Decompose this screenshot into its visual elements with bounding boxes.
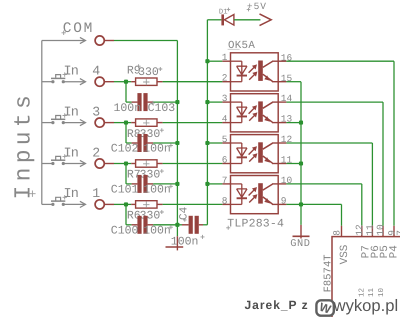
capacitor C103 bbox=[125, 82, 127, 102]
capacitor C4 bbox=[177, 224, 182, 226]
junction node R6 input bbox=[124, 202, 128, 206]
svg-text:6: 6 bbox=[222, 154, 228, 165]
resistor R7 bbox=[136, 160, 157, 167]
wire In 2 arrow bbox=[63, 163, 84, 165]
svg-text:C103: C103 bbox=[148, 102, 176, 115]
wire junction to R7 bbox=[126, 163, 131, 165]
junction +5V rail pin 1 bbox=[205, 59, 209, 63]
pin stub 11 bbox=[272, 163, 286, 165]
pin stub In 2 pad bbox=[105, 163, 114, 165]
svg-text:wykop.pl: wykop.pl bbox=[333, 296, 399, 315]
wire pad to junction (R6 input) bbox=[114, 203, 126, 205]
wire pin 13 to GND rail bbox=[286, 122, 301, 124]
wire COM arrow bbox=[42, 40, 85, 42]
svg-text:GND: GND bbox=[290, 238, 310, 250]
wire GND to IC VSS bbox=[301, 203, 342, 205]
pin stub 1 bbox=[222, 60, 230, 62]
pin stub In 1 pad bbox=[105, 203, 114, 205]
svg-text:F8574T: F8574T bbox=[322, 254, 334, 292]
junction node R7 input bbox=[124, 161, 128, 165]
svg-text:3: 3 bbox=[92, 104, 100, 119]
wire C103 to COM rail bbox=[153, 101, 177, 103]
junction COM rail bbox=[175, 141, 179, 145]
pin stub 6 bbox=[222, 163, 230, 165]
pad In 4 bbox=[95, 77, 104, 86]
wire C102 to COM rail bbox=[153, 142, 177, 144]
wire C100 to COM rail bbox=[153, 224, 177, 226]
wire rail to pin 7 bbox=[207, 183, 222, 185]
resistor R9 bbox=[136, 78, 157, 85]
pin stub 4 bbox=[222, 122, 230, 124]
pin stub 5 bbox=[222, 142, 230, 144]
junction node R8 input bbox=[124, 121, 128, 125]
ground COM (bottom) bbox=[176, 236, 178, 250]
opto channel 1 box (OK5A) bbox=[231, 53, 279, 91]
svg-text:Inputs: Inputs bbox=[11, 91, 37, 200]
wire C4 to +5V rail bbox=[203, 224, 207, 226]
pin stub 13 bbox=[272, 122, 286, 124]
wire pin 11 to GND rail bbox=[286, 163, 301, 165]
opto channel 3 box (OK5A) bbox=[231, 135, 279, 173]
svg-text:100n: 100n bbox=[143, 184, 171, 197]
phototransistor channel 3 bbox=[258, 142, 263, 162]
pin stub 2 bbox=[222, 81, 230, 83]
svg-text:9: 9 bbox=[281, 196, 287, 207]
junction COM rail bbox=[175, 100, 179, 104]
svg-text:In: In bbox=[64, 187, 78, 202]
wire COM rail vertical bbox=[176, 41, 178, 225]
capacitor C101 bbox=[125, 164, 127, 184]
resistor R6 bbox=[136, 201, 157, 208]
svg-text:P4: P4 bbox=[389, 245, 400, 259]
switch button In 4 bbox=[51, 77, 65, 79]
ground GND bbox=[300, 225, 302, 239]
arrowhead In 4 bbox=[80, 79, 86, 85]
pad In 1 bbox=[95, 200, 104, 209]
svg-text:OK5A: OK5A bbox=[228, 40, 255, 52]
capacitor C102 bbox=[125, 123, 127, 143]
svg-text:C101: C101 bbox=[111, 184, 139, 197]
arrowhead In 2 bbox=[80, 160, 86, 166]
svg-text:In: In bbox=[64, 105, 78, 120]
pin stub 3 bbox=[222, 101, 230, 103]
pin stub In 3 pad bbox=[105, 122, 114, 124]
supply +5V symbol bbox=[260, 14, 272, 26]
pin stub COM pad bbox=[105, 40, 114, 42]
pad In 3 bbox=[95, 118, 104, 127]
svg-text:D1: D1 bbox=[219, 9, 228, 17]
capacitor C100 bbox=[125, 204, 127, 224]
opto channel 2 box (OK5A) bbox=[231, 94, 279, 132]
svg-text:COM: COM bbox=[63, 21, 94, 37]
LED channel 4 bbox=[231, 183, 242, 185]
svg-text:100n: 100n bbox=[143, 143, 171, 156]
wire diode to +5V bbox=[234, 19, 261, 21]
wire pad to junction (R7 input) bbox=[114, 163, 126, 165]
wire COM rail to ground bbox=[176, 225, 178, 236]
pin stub 10 bbox=[272, 183, 286, 185]
wire In 1 stub bbox=[42, 203, 52, 205]
svg-text:100n: 100n bbox=[171, 236, 199, 249]
svg-text:In: In bbox=[64, 146, 78, 161]
wire COM to rail bbox=[114, 40, 177, 42]
svg-text:330: 330 bbox=[140, 128, 161, 141]
svg-text:1: 1 bbox=[222, 52, 228, 63]
LED channel 1 bbox=[231, 60, 242, 62]
wire In 1 arrow bbox=[63, 203, 84, 205]
wire opto pin 10 to IC P7/12 bbox=[286, 183, 361, 185]
wire pad to junction (R9 input) bbox=[114, 81, 126, 83]
pin stub 12 bbox=[272, 142, 286, 144]
pin stub 7 bbox=[222, 183, 230, 185]
wire junction to R6 bbox=[126, 203, 131, 205]
wire In 3 arrow bbox=[63, 122, 84, 124]
pad In 2 bbox=[95, 159, 104, 168]
switch button In 2 bbox=[51, 159, 65, 161]
wire junction to R8 bbox=[126, 122, 131, 124]
resistor R8 bbox=[136, 119, 157, 126]
junction node R9 input bbox=[124, 80, 128, 84]
wire rail to diode bbox=[207, 19, 221, 21]
svg-text:8: 8 bbox=[332, 230, 343, 236]
wire rail to pin 1 bbox=[207, 60, 222, 62]
svg-text:C4: C4 bbox=[179, 206, 191, 220]
wire R9 to opto pin 2 bbox=[157, 81, 163, 83]
junction +5V rail pin 7 bbox=[205, 182, 209, 186]
junction COM rail bbox=[175, 223, 179, 227]
light arrows channel 4 bbox=[249, 190, 255, 196]
svg-text:5: 5 bbox=[222, 134, 228, 145]
svg-text:11: 11 bbox=[365, 224, 376, 236]
phototransistor channel 1 bbox=[258, 61, 263, 81]
pin stub 8 bbox=[222, 203, 230, 205]
pin stub In 4 pad bbox=[105, 81, 114, 83]
pin stub 14 bbox=[272, 101, 286, 103]
svg-text:Jarek_P z: Jarek_P z bbox=[245, 298, 309, 312]
phototransistor channel 4 bbox=[258, 183, 263, 203]
light arrows channel 1 bbox=[249, 67, 255, 73]
junction +5V rail pin 5 bbox=[205, 141, 209, 145]
svg-text:8: 8 bbox=[222, 195, 228, 206]
wire In 2 stub bbox=[42, 163, 52, 165]
wire opto pin 12 to IC P6/11 bbox=[286, 142, 372, 144]
junction GND rail bbox=[299, 161, 303, 165]
wire +5V rail vertical bbox=[206, 20, 208, 225]
svg-text:330: 330 bbox=[140, 210, 161, 223]
svg-text:2: 2 bbox=[222, 73, 228, 84]
svg-text:4: 4 bbox=[92, 64, 100, 79]
junction COM rail bbox=[175, 182, 179, 186]
LED channel 2 bbox=[231, 101, 242, 103]
diode D1 bbox=[221, 14, 224, 25]
wire In 4 arrow bbox=[63, 81, 84, 83]
svg-text:C100: C100 bbox=[111, 224, 139, 237]
pin stub 9 bbox=[272, 203, 286, 205]
LED channel 3 bbox=[231, 142, 242, 144]
wire pad to junction (R8 input) bbox=[114, 122, 126, 124]
svg-text:2: 2 bbox=[92, 145, 100, 160]
junction +5V rail pin 3 bbox=[205, 100, 209, 104]
svg-text:4: 4 bbox=[222, 114, 228, 125]
svg-text:TLP283-4: TLP283-4 bbox=[227, 217, 284, 230]
pad COM bbox=[95, 36, 104, 45]
svg-text:100n: 100n bbox=[114, 102, 142, 115]
phototransistor channel 2 bbox=[258, 101, 263, 121]
wire input bus bbox=[41, 41, 43, 205]
wire rail to pin 5 bbox=[207, 142, 222, 144]
wire R6 to opto pin 8 bbox=[157, 203, 163, 205]
IC U1 F8574T box bbox=[332, 237, 400, 317]
wire pin 9 to GND rail bbox=[286, 203, 301, 205]
arrowhead In 3 bbox=[80, 120, 86, 126]
pin stub 15 bbox=[272, 81, 286, 83]
svg-text:330: 330 bbox=[138, 66, 159, 79]
wire pin 15 to GND rail bbox=[286, 81, 301, 83]
svg-text:330: 330 bbox=[140, 169, 161, 182]
arrowhead In 1 bbox=[80, 201, 86, 207]
wire opto pin 16 to IC P4/9 bbox=[286, 60, 394, 62]
svg-text:10: 10 bbox=[375, 224, 386, 236]
pin stub 16 bbox=[272, 60, 286, 62]
svg-text:7: 7 bbox=[222, 175, 228, 186]
svg-text:3: 3 bbox=[222, 93, 228, 104]
wire In 3 stub bbox=[42, 122, 52, 124]
svg-text:VSS: VSS bbox=[339, 244, 351, 264]
svg-text:7: 7 bbox=[395, 230, 400, 236]
wire junction to R9 bbox=[126, 81, 131, 83]
svg-text:100n: 100n bbox=[143, 224, 171, 237]
arrowhead COM bbox=[80, 37, 86, 43]
junction GND rail bbox=[299, 202, 303, 206]
svg-text:In: In bbox=[64, 65, 78, 80]
wire R8 to opto pin 4 bbox=[157, 122, 163, 124]
switch button In 1 bbox=[51, 200, 65, 202]
wire opto pin 14 to IC P5/10 bbox=[286, 101, 383, 103]
junction GND rail bbox=[299, 121, 303, 125]
svg-text:+5V: +5V bbox=[247, 1, 267, 12]
wire R7 to opto pin 6 bbox=[157, 163, 163, 165]
wire GND rail vertical bbox=[300, 82, 302, 225]
wire In 4 stub bbox=[42, 81, 52, 83]
light arrows channel 2 bbox=[249, 108, 255, 114]
svg-text:1: 1 bbox=[92, 186, 100, 201]
wire rail to pin 3 bbox=[207, 101, 222, 103]
svg-text:12: 12 bbox=[354, 224, 365, 236]
switch button In 3 bbox=[51, 118, 65, 120]
svg-text:C102: C102 bbox=[111, 143, 139, 156]
wire C101 to COM rail bbox=[153, 183, 177, 185]
light arrows channel 3 bbox=[249, 149, 255, 155]
opto channel 4 box (OK5A) bbox=[231, 176, 279, 214]
